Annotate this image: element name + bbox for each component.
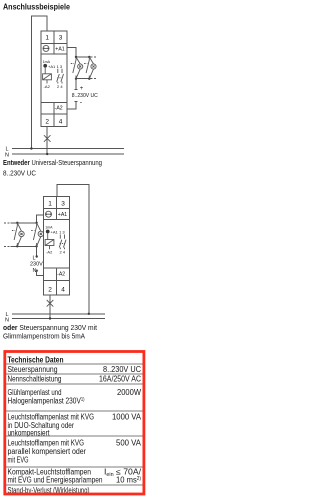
svg-text:+A1: +A1 <box>55 46 64 52</box>
svg-text:16A/250V AC: 16A/250V AC <box>99 375 141 384</box>
svg-text:+A1: +A1 <box>58 212 67 218</box>
svg-text:1 3: 1 3 <box>59 230 65 235</box>
svg-text:Anschlussbeispiele: Anschlussbeispiele <box>3 3 70 12</box>
svg-text:-A2: -A2 <box>46 250 53 255</box>
svg-text:2 4: 2 4 <box>57 84 63 89</box>
svg-text:2000W: 2000W <box>117 388 141 397</box>
svg-text:-A2: -A2 <box>55 105 63 111</box>
svg-text:4: 4 <box>59 118 63 125</box>
svg-text:4: 4 <box>61 286 65 293</box>
svg-text:mit EVG: mit EVG <box>8 456 29 465</box>
svg-text:3: 3 <box>59 35 63 42</box>
svg-text:1 3: 1 3 <box>57 64 63 69</box>
svg-text:+A1: +A1 <box>48 64 56 69</box>
svg-text:1000 VA: 1000 VA <box>112 413 142 422</box>
svg-text:-A2: -A2 <box>44 84 51 89</box>
svg-text:-A2: -A2 <box>57 272 65 278</box>
svg-text:1: 1 <box>45 35 49 42</box>
svg-text:8..230V UC: 8..230V UC <box>72 93 98 99</box>
svg-text:+A1: +A1 <box>51 230 59 235</box>
svg-text:Technische Daten: Technische Daten <box>8 356 64 365</box>
svg-text:3: 3 <box>61 201 65 208</box>
svg-text:Steuerspannung: Steuerspannung <box>8 365 58 374</box>
svg-text:1: 1 <box>48 201 52 208</box>
svg-text:mit EVG und Energiesparlampen: mit EVG und Energiesparlampen <box>8 475 103 484</box>
svg-text:8..230V UC: 8..230V UC <box>3 169 36 178</box>
svg-text:+: + <box>80 86 84 92</box>
svg-text:Entweder Universal-Steuerspann: Entweder Universal-Steuerspannung <box>3 158 102 167</box>
svg-text:Nennschaltleistung: Nennschaltleistung <box>8 375 62 384</box>
svg-text:8..230V UC: 8..230V UC <box>103 365 141 374</box>
svg-text:500 VA: 500 VA <box>116 439 142 448</box>
svg-text:2: 2 <box>45 118 49 125</box>
svg-text:Halogenlampenlast 230V1): Halogenlampenlast 230V1) <box>8 397 85 406</box>
svg-text:2 4: 2 4 <box>60 250 66 255</box>
svg-text:230V: 230V <box>30 262 43 268</box>
svg-text:Glimmlampenstrom bis 5mA: Glimmlampenstrom bis 5mA <box>3 332 85 341</box>
svg-text:2: 2 <box>48 286 52 293</box>
